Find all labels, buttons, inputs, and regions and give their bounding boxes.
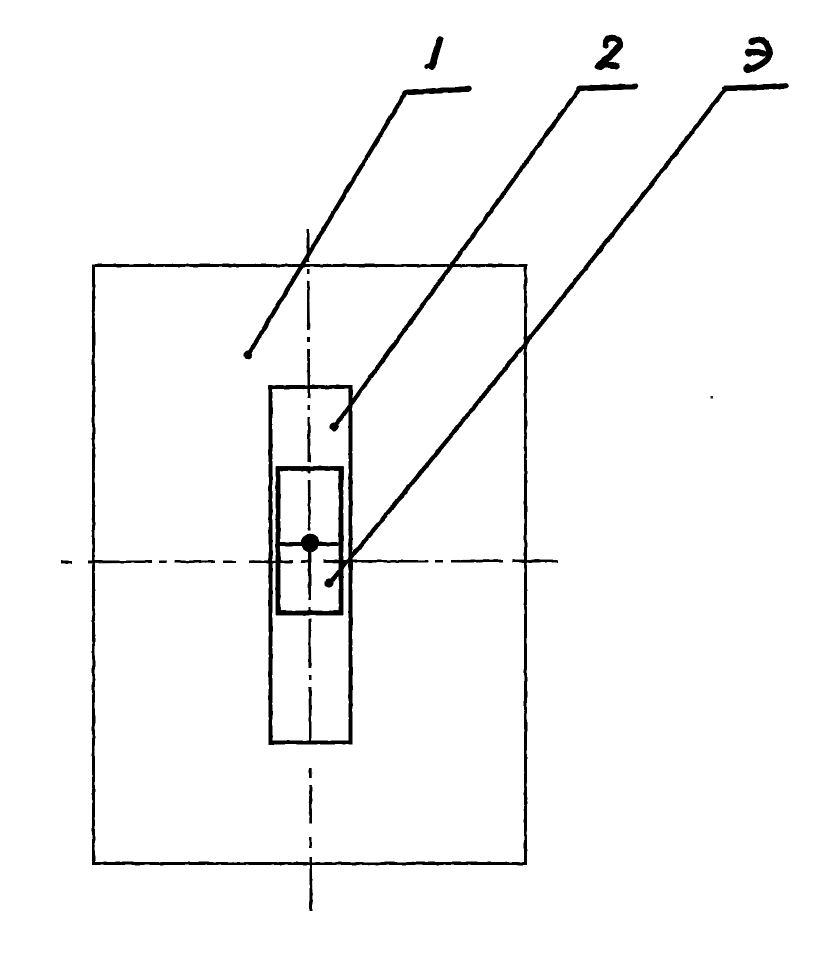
- label 3 underline: [725, 86, 786, 89]
- leader 2 end blob: [330, 423, 339, 432]
- inner tall rectangle (part 2): [271, 387, 351, 743]
- scan speck: [711, 396, 714, 399]
- label digit 3: [743, 38, 769, 73]
- leader line 3: [328, 88, 726, 585]
- label digit 2: [596, 38, 620, 71]
- vertical dash-dot centerline: [308, 229, 311, 911]
- leader 3 end blob: [325, 579, 334, 588]
- leader line 1: [247, 92, 406, 357]
- label 1 underline: [405, 89, 469, 93]
- outer plate rectangle (part 1): [94, 266, 526, 864]
- small inner rectangle (part 3): [278, 469, 341, 614]
- label 2 underline: [579, 87, 635, 89]
- leader line 2: [333, 88, 580, 429]
- center dot: [301, 534, 319, 552]
- leader 1 end blob: [244, 351, 253, 360]
- label digit 1: [427, 40, 440, 67]
- horizontal dash-dot centerline: [61, 561, 558, 562]
- horizontal bar through center dot: [277, 542, 342, 546]
